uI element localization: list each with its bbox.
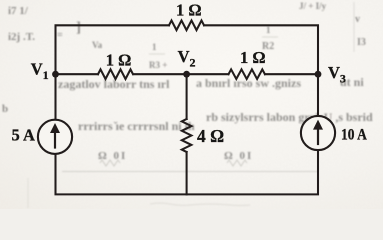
node V3 dot [315, 71, 322, 78]
resistor R3 4ohm vertical zigzag [182, 119, 192, 152]
resistor R-top 1ohm zigzag [169, 21, 204, 31]
wire top right segment [204, 25, 318, 116]
svg-text:1: 1 [152, 42, 157, 52]
arrow shaft I2 [317, 128, 319, 144]
current source I1 5A circle [38, 120, 72, 154]
arrow head I1 [50, 123, 60, 133]
svg-text:a bnırl ırso sw .gnizs: a bnırl ırso sw .gnizs [196, 76, 301, 90]
svg-text:rrrirrs ̌ıe crrrrsnl ni ih: rrrirrs ̌ıe crrrrsnl ni ih [78, 119, 195, 133]
svg-text:i7 1/: i7 1/ [8, 5, 29, 17]
wire top left segment [56, 25, 170, 120]
svg-text:5 A: 5 A [12, 125, 35, 144]
wire 4ohm to bottom [186, 152, 188, 194]
svg-text:10 A: 10 A [341, 127, 367, 144]
svg-text:J/ + I/y: J/ + I/y [299, 1, 327, 11]
svg-text:v: v [355, 14, 360, 25]
arrow head I2 [313, 120, 323, 130]
svg-text:rb sizylsrrs labon grrizU ,s b: rb sizylsrrs labon grrizU ,s bsrid [206, 110, 373, 124]
circuit drawing [12, 0, 368, 194]
current source I2 10A circle [301, 116, 335, 150]
svg-text:1 Ω: 1 Ω [240, 48, 266, 67]
svg-text:1 Ω: 1 Ω [106, 50, 132, 69]
node V2 dot [183, 71, 190, 78]
wire middle horizontal V1 side [56, 73, 99, 75]
svg-text:R3 +: R3 + [149, 60, 167, 70]
arrow shaft I1 [54, 132, 56, 148]
svg-text:=: = [57, 30, 63, 41]
svg-text:4 Ω: 4 Ω [197, 126, 224, 146]
node V1 dot [52, 71, 59, 78]
wire middle horizontal V3 side [265, 73, 318, 75]
svg-text:1 Ω: 1 Ω [176, 0, 202, 19]
svg-text:i2j .T.: i2j .T. [8, 31, 35, 43]
svg-text:Va: Va [92, 40, 103, 50]
wire left bottom segment [56, 150, 319, 194]
resistor R2 1ohm zigzag V2-V3 [229, 69, 265, 79]
wire middle horizontal V2 section [134, 73, 229, 75]
svg-text:1: 1 [266, 25, 271, 35]
svg-text:zagatlov laborr tns ırl: zagatlov laborr tns ırl [58, 77, 170, 91]
svg-text:b: b [2, 103, 8, 115]
wire V2 down [186, 74, 188, 119]
svg-text:I3: I3 [357, 37, 366, 48]
svg-text:]: ] [76, 20, 81, 36]
resistor R1 1ohm zigzag V1-V2 [98, 69, 133, 79]
